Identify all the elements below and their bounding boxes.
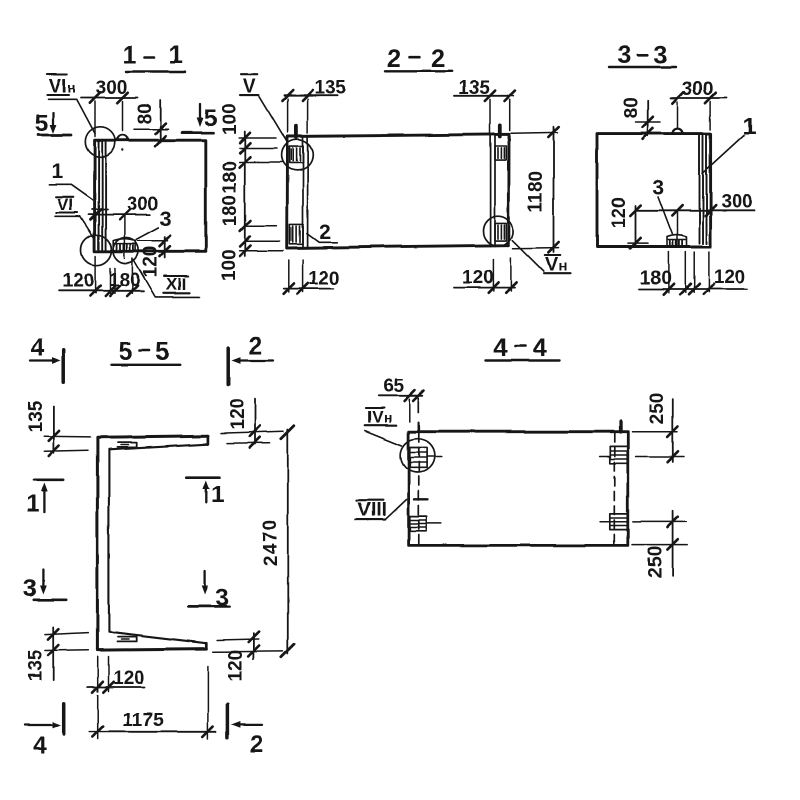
section 4-4 title: [486, 334, 560, 362]
svg-text:1: 1: [742, 114, 756, 141]
svg-text:80: 80: [135, 103, 156, 124]
svg-text:5: 5: [35, 110, 49, 137]
embed mark top flange 5-5: [118, 443, 138, 448]
detail circle top (VIн): [85, 127, 115, 157]
bar splice mark 1-1: [92, 209, 108, 211]
svg-text:2: 2: [387, 45, 401, 73]
label IVн with leader: [365, 407, 402, 445]
panel outline section 1-1: [95, 140, 206, 251]
svg-text:250: 250: [647, 393, 668, 425]
lifting loop 1-1: [117, 135, 128, 151]
svg-text:3: 3: [654, 41, 668, 69]
svg-text:IV: IV: [367, 407, 384, 426]
svg-text:н: н: [68, 80, 76, 96]
detail circle IVн 4-4: [401, 439, 435, 473]
svg-text:120: 120: [609, 197, 630, 229]
dimension 80 (loop height) 1-1: [134, 101, 169, 147]
label VIн with leader: [47, 75, 95, 134]
dimension 65 top 4-4: [378, 376, 424, 422]
rebar bars 1-1: [99, 142, 106, 251]
svg-text:4: 4: [31, 335, 45, 362]
svg-text:2: 2: [431, 45, 445, 73]
svg-text:120: 120: [714, 267, 746, 288]
svg-text:135: 135: [458, 78, 490, 99]
section mark 1 left: [26, 480, 64, 518]
label XII with leader: [134, 260, 200, 297]
svg-text:180: 180: [220, 195, 241, 227]
svg-text:180: 180: [640, 268, 672, 289]
svg-text:н: н: [559, 258, 567, 274]
svg-text:135: 135: [26, 400, 47, 432]
svg-text:3: 3: [617, 41, 631, 69]
embed plate bottom-right 4-4: [600, 514, 628, 530]
label 3 with leader 3-3: [652, 176, 672, 234]
dimension 300 middle 3-3: [636, 192, 755, 247]
svg-text:2: 2: [248, 333, 262, 360]
section mark 4 bottom-left: [25, 703, 65, 759]
svg-text:120: 120: [308, 269, 340, 290]
dimension 300 lower 1-1: [89, 194, 158, 258]
hidden rebar line right (dashed) 4-4: [613, 433, 615, 545]
section mark 2 bottom-right: [227, 705, 262, 758]
label 2 with leader: [307, 221, 337, 244]
section mark 1 right: [187, 477, 225, 508]
dimension 80 (loop height) 3-3: [621, 97, 660, 139]
dimension 135 top-right 2-2: [454, 78, 515, 133]
dimension 120 bottom-left 2-2: [284, 260, 340, 294]
svg-text:VI: VI: [57, 196, 73, 215]
svg-text:1: 1: [123, 41, 137, 69]
svg-text:1: 1: [211, 481, 225, 508]
detail circle V (top-left 2-2): [282, 140, 313, 171]
svg-text:80: 80: [621, 97, 642, 118]
dowel stub right 4-4: [618, 422, 622, 432]
embed plate 3 (bottom of 1-1): [113, 239, 135, 251]
label V with leader: [240, 74, 287, 142]
svg-text:120: 120: [62, 271, 94, 292]
dimension 120 left vertical 3-3: [609, 197, 648, 249]
dimension 1180 right of 2-2: [511, 127, 559, 253]
svg-text:VIII: VIII: [358, 500, 387, 521]
dimension 2470 right of 5-5: [261, 426, 295, 658]
svg-text:1: 1: [26, 491, 40, 518]
svg-text:XII: XII: [166, 275, 187, 294]
svg-text:135: 135: [315, 78, 347, 99]
right rib lines 2-2: [491, 136, 495, 247]
channel panel inner faces 5-5: [109, 444, 208, 643]
svg-text:100: 100: [219, 249, 240, 281]
embed plate top-left 2-2: [290, 147, 303, 164]
section 5-5 title: [111, 338, 180, 366]
dowel stub left 2-2: [294, 126, 298, 137]
svg-text:300: 300: [96, 78, 128, 99]
section mark 5 right: [182, 105, 218, 133]
label VI with leader: [55, 196, 95, 240]
dimension chain 100/180/180/100 left of 2-2: [219, 103, 283, 281]
section 1-1 title: [123, 41, 185, 72]
svg-text:3: 3: [652, 176, 664, 199]
dimension 300 top of 3-3: [671, 79, 727, 130]
dimension 135 top-left 5-5: [26, 400, 90, 456]
dimension 120 bottom-right 2-2: [454, 258, 516, 293]
section mark 4 top-left: [30, 335, 64, 383]
dimension 300 top of 1-1: [81, 78, 138, 137]
svg-text:300: 300: [721, 192, 753, 213]
panel outline section 2-2: [287, 134, 509, 248]
label 1 with leader: [49, 161, 92, 200]
dimension 250 top-right 4-4: [632, 393, 684, 462]
channel panel outline 5-5 (outer): [97, 436, 207, 649]
embed plate top-right 4-4: [600, 446, 628, 463]
embed mark bottom flange 5-5: [117, 637, 137, 642]
svg-text:300: 300: [682, 79, 714, 100]
svg-text:2470: 2470: [261, 518, 282, 566]
section mark 3 right: [188, 572, 229, 612]
svg-text:н: н: [384, 409, 392, 425]
svg-text:5: 5: [204, 105, 218, 132]
weld cross mark 4-4: [414, 498, 428, 500]
svg-text:120: 120: [113, 668, 145, 689]
svg-text:180: 180: [220, 161, 241, 193]
section 2-2 title: [386, 45, 452, 73]
dimension 120 top-right 5-5: [221, 398, 284, 448]
dimension chain 120/180 bottom of 1-1: [59, 256, 143, 296]
label 1 with leader 3-3: [703, 114, 757, 174]
embed plate bottom-left 2-2: [290, 224, 303, 243]
dimension chain 180/120 bottom of 3-3: [639, 252, 748, 294]
section 3-3 title: [609, 41, 676, 69]
svg-text:1180: 1180: [526, 171, 547, 212]
detail circle bottom-left (VI): [81, 235, 111, 265]
detail circle Vн (bottom-right 2-2): [484, 216, 514, 246]
label 3 with leader 1-1: [136, 208, 171, 240]
svg-text:135: 135: [26, 650, 47, 682]
dimension 135 top-left 2-2: [282, 78, 346, 133]
dimension 1175 bottom 5-5: [89, 666, 216, 739]
svg-text:2: 2: [319, 221, 331, 244]
embed plate 3 (bottom of 3-3): [667, 235, 687, 247]
svg-text:120: 120: [226, 650, 247, 682]
svg-text:120: 120: [140, 246, 161, 278]
dimension 120 vertical (plate offset) 1-1: [138, 236, 170, 278]
embed plate bottom-right 2-2: [495, 223, 506, 240]
section mark 2 top-right: [228, 333, 273, 384]
hidden rebar line left (dashed) 4-4: [418, 399, 420, 546]
svg-text:120: 120: [227, 398, 248, 430]
svg-text:5: 5: [156, 338, 170, 366]
dimension 120 bottom-right 5-5: [213, 632, 283, 682]
svg-text:5: 5: [119, 338, 133, 366]
embed plate IVн (top-left 4-4): [410, 448, 442, 468]
svg-text:3: 3: [159, 208, 171, 231]
svg-text:2: 2: [249, 731, 263, 758]
panel outline section 4-4: [409, 432, 628, 546]
svg-text:300: 300: [126, 194, 158, 215]
detail circle bottom-right (XII): [113, 238, 139, 264]
panel outline section 3-3: [597, 134, 711, 247]
lifting loop 3-3: [673, 129, 683, 134]
embed plate top-right 2-2: [495, 146, 506, 161]
dimension 120 web bottom 5-5: [88, 656, 145, 692]
dimension 250 bottom-right 4-4: [632, 511, 687, 578]
label VIII with leader: [356, 500, 407, 522]
svg-text:120: 120: [462, 267, 494, 288]
svg-text:1175: 1175: [122, 710, 164, 731]
rebar bars 3-3: [700, 134, 707, 244]
svg-text:1: 1: [51, 161, 63, 184]
svg-text:100: 100: [220, 103, 241, 135]
dimension 135 bottom-left 5-5: [26, 627, 89, 681]
left rib lines 2-2: [303, 137, 308, 248]
dowel stub right 2-2: [498, 125, 502, 136]
section mark 3 left: [23, 570, 65, 603]
svg-text:65: 65: [383, 376, 405, 397]
svg-text:180: 180: [109, 270, 141, 291]
svg-text:4: 4: [493, 334, 507, 362]
svg-text:4: 4: [33, 733, 47, 760]
section mark 5 left: [35, 110, 72, 137]
svg-text:1: 1: [169, 41, 183, 69]
svg-text:4: 4: [533, 334, 547, 362]
embed plate lower-left 4-4: [410, 516, 442, 531]
label Vн with leader: [513, 240, 570, 276]
svg-text:250: 250: [646, 546, 667, 578]
